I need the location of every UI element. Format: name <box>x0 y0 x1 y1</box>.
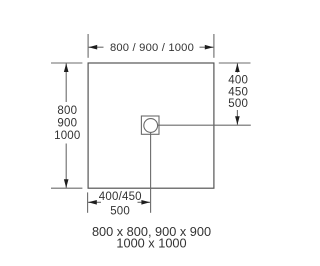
svg-text:800: 800 <box>57 105 77 117</box>
svg-text:400: 400 <box>228 75 248 87</box>
svg-text:900: 900 <box>57 118 77 130</box>
svg-text:450: 450 <box>228 86 248 98</box>
svg-text:500: 500 <box>110 205 130 217</box>
svg-text:800 / 900 / 1000: 800 / 900 / 1000 <box>110 42 194 54</box>
svg-text:400/450: 400/450 <box>99 191 142 203</box>
svg-text:1000 x 1000: 1000 x 1000 <box>116 235 186 250</box>
svg-text:500: 500 <box>228 98 248 110</box>
svg-text:1000: 1000 <box>54 130 80 142</box>
